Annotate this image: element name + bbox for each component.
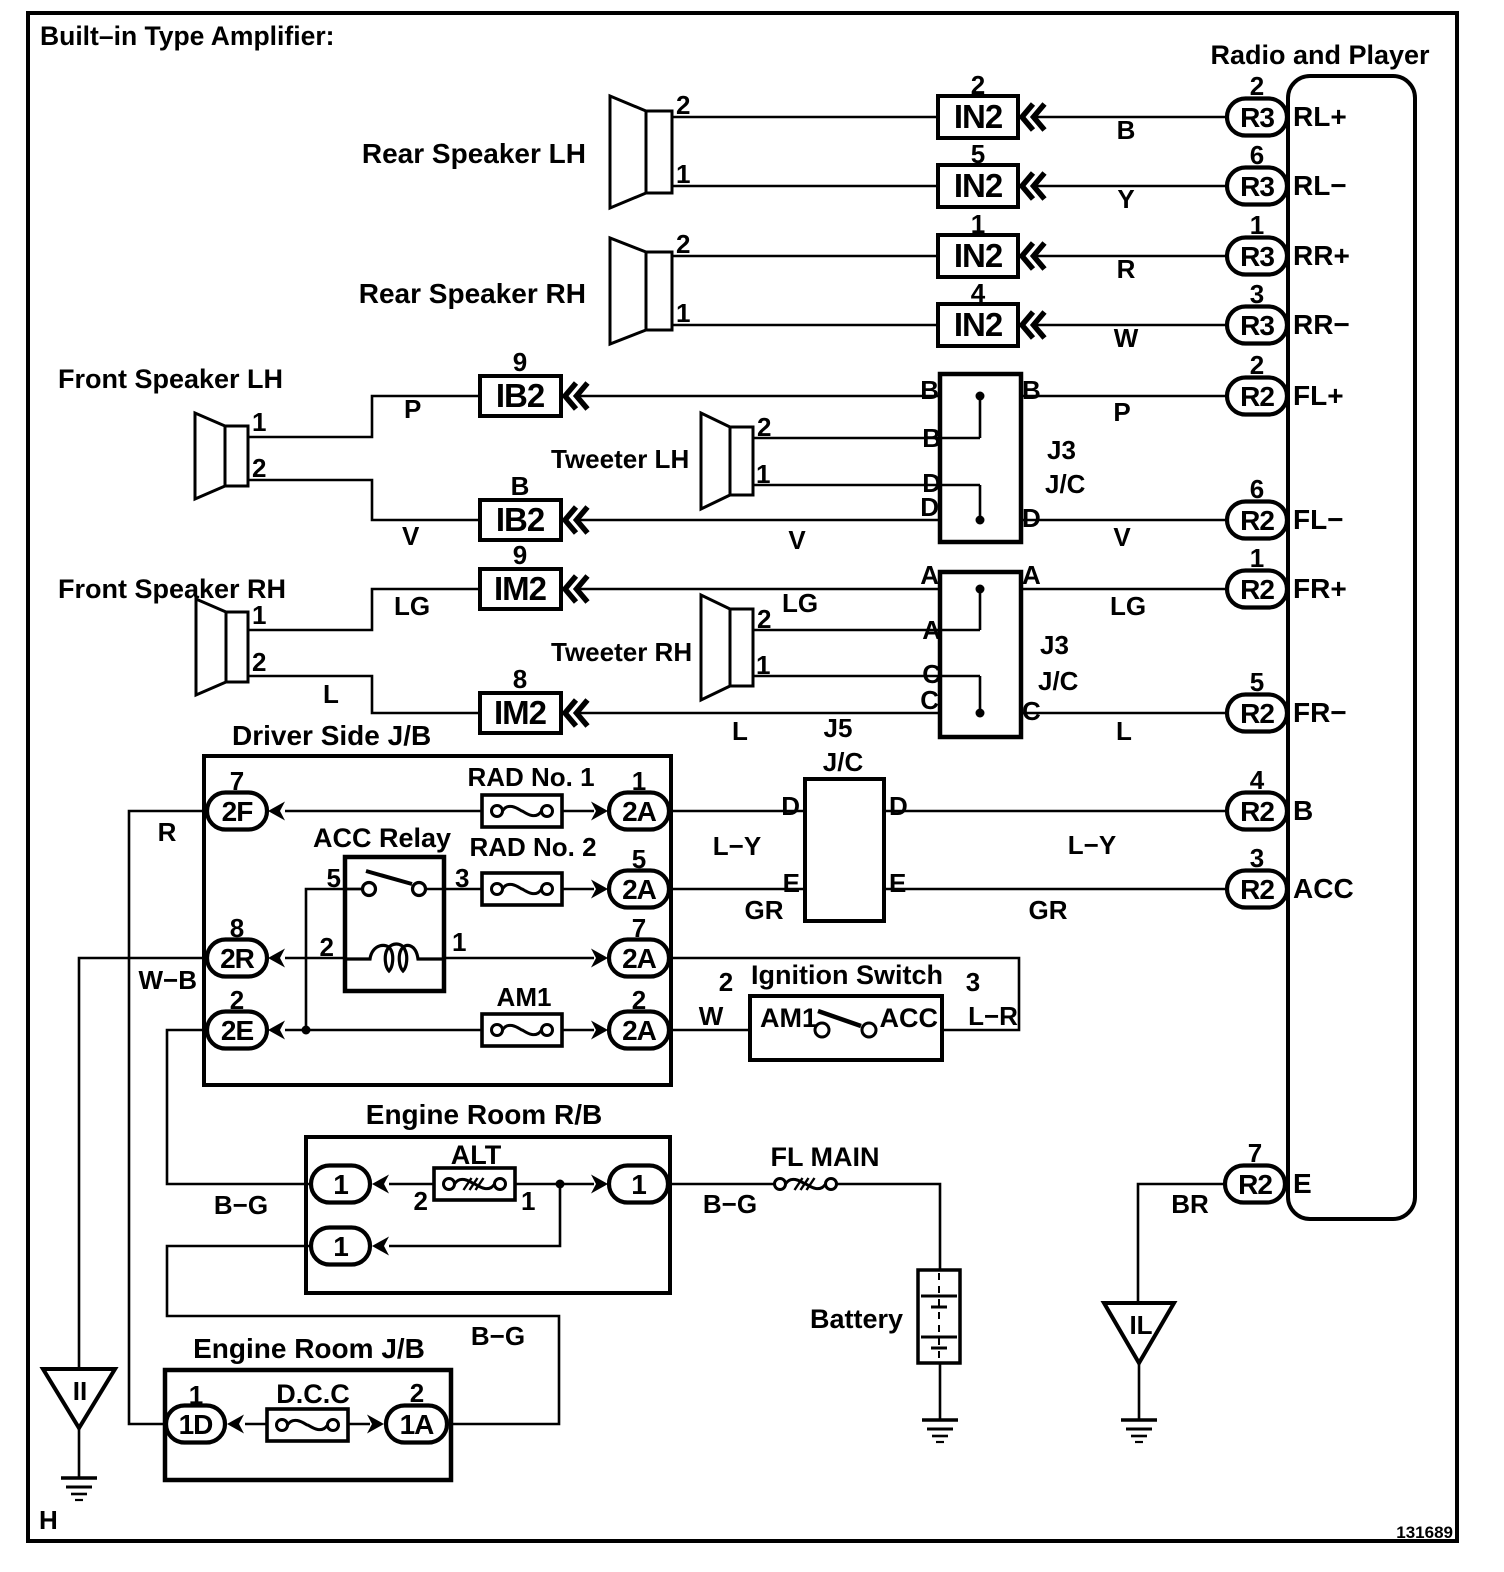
svg-text:1: 1 [632, 766, 646, 796]
svg-text:P: P [404, 394, 421, 424]
wire ALT fuse to junction dot and 1 [515, 1175, 608, 1194]
svg-text:AM1: AM1 [497, 982, 552, 1012]
wire R from 2F down to Engine Room J/B 1D [129, 811, 207, 1424]
wire V IB2 to J3 (D) [576, 520, 940, 555]
ground point II [43, 1369, 115, 1478]
svg-text:V: V [1113, 522, 1131, 552]
wire tweeter RH pin1 (C) to J3 [753, 659, 980, 689]
rear speaker RH [359, 229, 691, 344]
svg-text:LG: LG [394, 591, 430, 621]
wire L-Y 2A to J/C (D) [669, 811, 805, 861]
svg-text:J3: J3 [1047, 435, 1076, 465]
svg-text:J3: J3 [1040, 630, 1069, 660]
svg-text:RR−: RR− [1293, 309, 1350, 340]
wire B to radio [1033, 115, 1227, 145]
svg-text:R2: R2 [1240, 796, 1274, 827]
svg-text:P: P [1113, 397, 1130, 427]
svg-text:R2: R2 [1240, 874, 1274, 905]
svg-text:1A: 1A [400, 1409, 435, 1440]
connector 2A pin 2 [609, 985, 669, 1049]
Driver Side J/B box [204, 720, 671, 1085]
wire RAD No.1 fuse to 2A [562, 802, 608, 821]
svg-text:J5: J5 [824, 713, 853, 743]
svg-text:FL MAIN: FL MAIN [771, 1142, 880, 1172]
wire junction down to lower 1 [389, 1184, 560, 1246]
radio connector R3 pin 6 (RL&#8722;) [1227, 140, 1347, 205]
svg-text:D: D [889, 791, 908, 821]
svg-text:1: 1 [189, 1380, 203, 1410]
svg-text:V: V [402, 521, 420, 551]
radio connector R2 pin 5 (FR&#8722;) [1227, 667, 1347, 732]
connector IB2 (B) [480, 471, 588, 540]
R/B connector 1 (upper left) [311, 1166, 389, 1203]
svg-text:9: 9 [513, 347, 527, 377]
wire W-B from 2R down to ground II [79, 958, 207, 1369]
svg-text:Radio and Player: Radio and Player [1210, 40, 1430, 70]
wire P J3 to radio FL+ [1021, 396, 1227, 427]
svg-text:2A: 2A [622, 943, 657, 974]
wire W 2A to ignition switch AM1 [669, 967, 750, 1031]
svg-text:2: 2 [676, 90, 690, 120]
svg-text:Rear Speaker RH: Rear Speaker RH [359, 278, 586, 309]
svg-text:Front Speaker LH: Front Speaker LH [58, 364, 283, 394]
wire relay coil to 2A pin7 [444, 949, 608, 968]
wire IB2 to J3 (B) [576, 395, 940, 398]
connector IN2 pin 1 [938, 209, 1045, 277]
connector 2A pin 1 [609, 766, 669, 830]
svg-text:D: D [1022, 503, 1041, 533]
front speaker RH [58, 574, 286, 695]
svg-text:D: D [920, 492, 939, 522]
svg-text:R: R [1117, 254, 1136, 284]
svg-text:B: B [1022, 375, 1041, 405]
ground point IL [1104, 1303, 1174, 1420]
svg-text:5: 5 [632, 844, 646, 874]
radio and player unit box [1210, 40, 1430, 1219]
svg-text:7: 7 [230, 766, 244, 796]
svg-text:1: 1 [1250, 543, 1264, 573]
svg-text:R3: R3 [1240, 171, 1274, 202]
svg-text:RL+: RL+ [1293, 101, 1347, 132]
wire relay to RAD No.2 fuse [444, 888, 482, 891]
svg-text:IN2: IN2 [954, 167, 1003, 204]
svg-text:6: 6 [1250, 474, 1264, 504]
front speaker LH [58, 364, 283, 499]
svg-text:GR: GR [1029, 895, 1068, 925]
ground below IL [1121, 1418, 1157, 1422]
wire 2F to RAD No.1 fuse [285, 810, 482, 813]
svg-text:FL+: FL+ [1293, 380, 1344, 411]
wire L IM2 to J3 with J5 label [576, 713, 940, 746]
wire upper 1 to ALT fuse [389, 1183, 434, 1186]
svg-text:1: 1 [252, 600, 266, 630]
svg-text:R2: R2 [1240, 574, 1274, 605]
svg-text:2R: 2R [220, 943, 255, 974]
radio connector R3 pin 2 (RL+) [1227, 71, 1347, 136]
ground below II [61, 1476, 97, 1480]
svg-text:D: D [781, 791, 800, 821]
svg-text:C: C [1022, 696, 1041, 726]
J3 LH junction dot D [976, 485, 985, 525]
wire L-Y J/C to radio B [884, 811, 1227, 860]
wire rear speaker to IN2 (row B) [672, 116, 938, 119]
svg-text:J/C: J/C [1038, 666, 1079, 696]
fuse D.C.C [267, 1379, 350, 1441]
svg-text:2: 2 [632, 985, 646, 1015]
fuse AM1 [482, 982, 562, 1046]
svg-text:131689: 131689 [1396, 1523, 1453, 1542]
svg-text:IN2: IN2 [954, 237, 1003, 274]
wire L front speaker RH pin2 to IM2 [248, 676, 480, 713]
tweeter RH [551, 595, 771, 700]
svg-text:IN2: IN2 [954, 98, 1003, 135]
svg-text:L−Y: L−Y [713, 831, 761, 861]
svg-text:H: H [39, 1505, 58, 1535]
svg-text:4: 4 [1250, 765, 1265, 795]
svg-text:J/C: J/C [823, 747, 864, 777]
svg-text:2: 2 [676, 229, 690, 259]
wire 2R to relay coil [285, 957, 345, 960]
svg-text:2F: 2F [222, 796, 254, 827]
connector IN2 pin 2 [938, 70, 1045, 138]
wire 2E to AM1 fuse [285, 1029, 482, 1032]
radio connector R3 pin 1 (RR+) [1227, 210, 1350, 275]
svg-text:2: 2 [410, 1378, 424, 1408]
svg-text:2A: 2A [622, 1015, 657, 1046]
svg-text:R3: R3 [1240, 102, 1274, 133]
connector IM2 pin 8 [480, 664, 588, 733]
wire BR radio E to IL [1138, 1184, 1225, 1303]
svg-text:1: 1 [252, 407, 266, 437]
wire battery to ground [939, 1363, 942, 1420]
svg-text:IB2: IB2 [496, 501, 545, 538]
wire rear speaker to IN2 (row W) [672, 324, 938, 327]
svg-text:1: 1 [971, 209, 985, 239]
radio connector R2 pin 1 (FR+) [1227, 543, 1347, 608]
Engine Room J/B box [165, 1333, 451, 1480]
wire RAD No.2 fuse to 2A [562, 880, 608, 899]
connector 2R pin 8 [207, 913, 285, 977]
svg-text:1: 1 [676, 298, 690, 328]
svg-text:V: V [788, 525, 806, 555]
svg-text:A: A [920, 560, 939, 590]
svg-text:R2: R2 [1240, 698, 1274, 729]
svg-text:B: B [1117, 115, 1136, 145]
radio connector R2 pin 7 (E) [1225, 1138, 1312, 1203]
svg-text:D.C.C: D.C.C [276, 1379, 350, 1409]
svg-text:II: II [73, 1376, 87, 1406]
wire FL MAIN to battery [837, 1184, 940, 1270]
svg-text:1: 1 [631, 1169, 646, 1200]
svg-text:B−G: B−G [214, 1190, 268, 1220]
wire relay pin5 down to 2E row [302, 889, 363, 1035]
svg-text:FR−: FR− [1293, 697, 1347, 728]
wire W to radio [1033, 323, 1227, 353]
svg-text:R3: R3 [1240, 310, 1274, 341]
svg-text:6: 6 [1250, 140, 1264, 170]
connector 2E pin 2 [207, 985, 285, 1049]
svg-text:E: E [889, 868, 906, 898]
svg-text:ACC: ACC [880, 1003, 939, 1033]
svg-text:1D: 1D [179, 1409, 214, 1440]
fuse ALT [414, 1140, 536, 1216]
radio connector R3 pin 3 (RR&#8722;) [1227, 279, 1350, 344]
svg-text:Tweeter RH: Tweeter RH [551, 637, 692, 667]
connector IN2 pin 5 [938, 139, 1045, 207]
svg-text:ALT: ALT [451, 1140, 502, 1170]
svg-text:2: 2 [971, 70, 985, 100]
svg-text:AM1: AM1 [760, 1003, 817, 1033]
wire V front speaker LH pin2 to IB2 [248, 480, 480, 551]
wire tweeter LH pin2 (B) to J3 [753, 423, 980, 453]
connector 2F pin 7 [207, 766, 285, 830]
svg-text:B−G: B−G [703, 1189, 757, 1219]
radio connector R2 pin 4 (B) [1227, 765, 1313, 830]
svg-text:8: 8 [513, 664, 527, 694]
wire V J3 to radio FL- [1021, 520, 1227, 552]
connector 1A pin 2 [386, 1378, 447, 1443]
wire Y to radio [1033, 184, 1227, 214]
wire tweeter LH pin1 (D) to J3 [753, 468, 980, 498]
svg-text:R2: R2 [1240, 381, 1274, 412]
svg-text:IB2: IB2 [496, 377, 545, 414]
svg-text:L: L [323, 679, 339, 709]
relay switch contacts [345, 871, 444, 896]
svg-text:IM2: IM2 [494, 694, 547, 731]
wire LG J3 to radio FR+ [1021, 589, 1227, 621]
svg-text:L−Y: L−Y [1068, 830, 1116, 860]
svg-text:R: R [158, 817, 177, 847]
Engine Room R/B box [306, 1099, 670, 1293]
R/B connector 1 (lower left) [311, 1228, 389, 1265]
wire GR 2A to J/C (E) [669, 889, 805, 925]
svg-text:ACC: ACC [1293, 873, 1354, 904]
svg-text:E: E [783, 868, 800, 898]
svg-text:1: 1 [521, 1186, 535, 1216]
svg-text:RL−: RL− [1293, 170, 1347, 201]
wire rear speaker to IN2 (row R) [672, 255, 938, 258]
svg-text:2: 2 [414, 1186, 428, 1216]
svg-text:5: 5 [1250, 667, 1264, 697]
wire L-R ignition switch pin3 to 2A pin7 [669, 958, 1019, 1031]
svg-text:Built–in Type Amplifier:: Built–in Type Amplifier: [40, 21, 334, 51]
connector 1D pin 1 [166, 1380, 244, 1443]
svg-text:7: 7 [632, 913, 646, 943]
svg-text:2: 2 [1250, 350, 1264, 380]
svg-text:Driver Side J/B: Driver Side J/B [232, 720, 431, 751]
svg-text:Engine Room R/B: Engine Room R/B [366, 1099, 602, 1130]
svg-text:FR+: FR+ [1293, 573, 1347, 604]
fusible link FL MAIN [771, 1142, 880, 1190]
connector IB2 pin 9 [480, 347, 588, 416]
svg-text:1: 1 [676, 159, 690, 189]
J3 RH junction dot C [976, 676, 985, 718]
svg-text:1: 1 [452, 927, 466, 957]
connector 2A pin 5 [609, 844, 669, 908]
svg-text:L: L [1116, 716, 1132, 746]
svg-text:2: 2 [252, 453, 266, 483]
svg-text:5: 5 [971, 139, 985, 169]
battery [810, 1270, 960, 1363]
svg-text:1: 1 [333, 1169, 348, 1200]
wire R to radio [1033, 254, 1227, 284]
wire L J3 to radio FR- [1021, 713, 1227, 746]
svg-text:R2: R2 [1238, 1169, 1272, 1200]
wire 1D to D.C.C fuse [245, 1423, 267, 1426]
svg-text:IL: IL [1129, 1310, 1152, 1340]
svg-text:Tweeter LH: Tweeter LH [551, 444, 689, 474]
J3 LH junction dot B [976, 392, 985, 439]
svg-text:Y: Y [1117, 184, 1134, 214]
svg-text:9: 9 [513, 540, 527, 570]
wire B-G from 2E down to Engine Room R/B [167, 1030, 311, 1220]
ACC Relay [313, 823, 469, 991]
wire LG front speaker RH pin1 to IM2 [248, 589, 480, 630]
svg-text:RAD No. 2: RAD No. 2 [469, 832, 596, 862]
radio connector R2 pin 6 (FL&#8722;) [1227, 474, 1344, 539]
svg-text:E: E [1293, 1168, 1312, 1199]
wire tweeter RH pin2 (A) to J3 [753, 615, 980, 645]
connector IM2 pin 9 [480, 540, 588, 609]
svg-text:RR+: RR+ [1293, 240, 1350, 271]
wire B-G R/B to FL MAIN [670, 1184, 774, 1219]
svg-text:IN2: IN2 [954, 306, 1003, 343]
wire P front speaker LH pin1 to IB2 [248, 394, 480, 437]
svg-text:FL−: FL− [1293, 504, 1344, 535]
svg-text:W: W [699, 1001, 724, 1031]
svg-text:1: 1 [333, 1231, 348, 1262]
svg-text:W: W [1114, 323, 1139, 353]
svg-text:IM2: IM2 [494, 570, 547, 607]
svg-text:LG: LG [1110, 591, 1146, 621]
junction connector J3 J/C (RH) [920, 560, 1078, 737]
relay coil [345, 944, 444, 971]
J3 RH junction dot A [976, 585, 985, 631]
svg-text:2A: 2A [622, 874, 657, 905]
svg-text:A: A [1022, 560, 1041, 590]
svg-text:2A: 2A [622, 796, 657, 827]
svg-text:B: B [511, 471, 530, 501]
svg-text:Rear Speaker LH: Rear Speaker LH [362, 138, 586, 169]
svg-text:BR: BR [1171, 1189, 1209, 1219]
svg-text:2: 2 [252, 647, 266, 677]
svg-text:Battery: Battery [810, 1304, 903, 1334]
svg-text:R3: R3 [1240, 241, 1274, 272]
svg-text:7: 7 [1248, 1138, 1262, 1168]
ignition switch [750, 960, 943, 1060]
ground below battery [922, 1418, 958, 1422]
svg-text:8: 8 [230, 913, 244, 943]
svg-text:3: 3 [966, 967, 980, 997]
svg-text:Engine Room J/B: Engine Room J/B [193, 1333, 425, 1364]
svg-text:4: 4 [971, 278, 986, 308]
wire GR J/C to radio ACC [884, 889, 1227, 925]
wire LG IM2 to J3 [576, 588, 940, 618]
svg-text:W−B: W−B [139, 965, 198, 995]
R/B connector 1 (right) [609, 1166, 668, 1203]
junction connector J3 J/C (LH) [920, 374, 1085, 542]
svg-text:1: 1 [1250, 210, 1264, 240]
radio connector R2 pin 2 (FL+) [1227, 350, 1344, 415]
svg-text:J/C: J/C [1045, 469, 1086, 499]
svg-text:2: 2 [1250, 71, 1264, 101]
svg-text:L: L [732, 716, 748, 746]
svg-text:2: 2 [719, 967, 733, 997]
rear speaker LH [362, 90, 691, 208]
svg-text:3: 3 [1250, 843, 1264, 873]
svg-text:R2: R2 [1240, 505, 1274, 536]
svg-text:B: B [920, 375, 939, 405]
radio connector R2 pin 3 (ACC) [1227, 843, 1354, 908]
svg-text:B−G: B−G [471, 1321, 525, 1351]
svg-text:C: C [920, 685, 939, 715]
svg-text:RAD No. 1: RAD No. 1 [467, 762, 594, 792]
wire AM1 fuse to 2A [562, 1021, 608, 1040]
connector 2A pin 7 [609, 913, 669, 977]
connector IN2 pin 4 [938, 278, 1045, 346]
svg-text:LG: LG [782, 588, 818, 618]
svg-text:L−R: L−R [968, 1001, 1018, 1031]
fuse RAD No. 1 [467, 762, 594, 827]
svg-text:ACC Relay: ACC Relay [313, 823, 451, 853]
svg-text:2E: 2E [221, 1015, 254, 1046]
svg-text:2: 2 [230, 985, 244, 1015]
svg-text:GR: GR [745, 895, 784, 925]
svg-text:3: 3 [455, 863, 469, 893]
wire D.C.C fuse to 1A [348, 1415, 384, 1434]
tweeter LH [551, 412, 771, 509]
svg-text:Ignition Switch: Ignition Switch [751, 960, 943, 990]
wire B-G 1A up to R/B lower 1 [167, 1246, 559, 1424]
svg-text:B: B [1293, 795, 1313, 826]
fuse RAD No. 2 [469, 832, 596, 905]
junction connector J5 J/C [781, 747, 908, 921]
wire rear speaker to IN2 (row Y) [672, 185, 938, 188]
svg-text:3: 3 [1250, 279, 1264, 309]
